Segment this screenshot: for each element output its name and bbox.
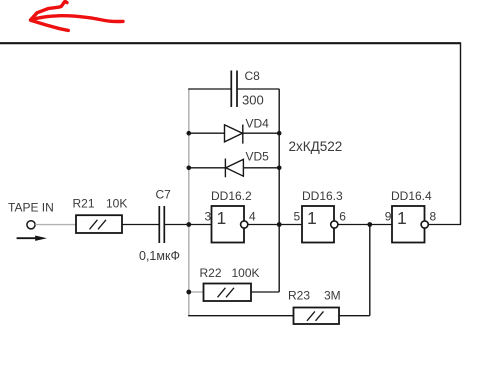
- capacitor C7: [159, 206, 164, 243]
- wire R23 to riser: [339, 315, 370, 317]
- wire junction down to R23 row: [369, 225, 371, 316]
- diode VD4: [225, 125, 243, 144]
- svg-text:1: 1: [397, 208, 407, 228]
- svg-text:TAPE IN: TAPE IN: [8, 201, 54, 215]
- wire top rail: [0, 42, 461, 44]
- wire C8 row: [188, 88, 279, 90]
- node junction C7 / left rail: [186, 222, 191, 227]
- svg-text:5: 5: [294, 210, 301, 224]
- node junction right rail / VD4: [277, 131, 282, 136]
- node junction DD16.3/DD16.4: [367, 222, 372, 227]
- svg-text:8: 8: [430, 210, 437, 224]
- wire DD16.4 output to riser: [428, 224, 461, 226]
- node junction left rail / R22: [186, 290, 191, 295]
- svg-text:2хКД522: 2хКД522: [289, 139, 343, 154]
- wire right riser from top rail to DD16.4 output: [460, 42, 462, 224]
- node junction right rail / VD5: [277, 166, 282, 171]
- svg-text:4: 4: [249, 210, 256, 224]
- svg-text:0,1мкФ: 0,1мкФ: [139, 249, 180, 263]
- wire junction to DD16.2 input: [189, 224, 212, 226]
- svg-text:R21: R21: [73, 197, 95, 211]
- wire bottom row to R23: [188, 315, 293, 317]
- svg-text:VD5: VD5: [246, 150, 270, 164]
- wire VD5 row: [189, 167, 280, 169]
- wire R22 to right rail: [251, 291, 279, 293]
- signal direction arrow: [17, 237, 36, 239]
- wire junction to DD16.3 input: [279, 224, 302, 226]
- svg-text:DD16.2: DD16.2: [211, 189, 252, 203]
- svg-text:C8: C8: [245, 69, 261, 83]
- resistor R21: [76, 215, 122, 233]
- node junction left rail / VD5: [187, 166, 192, 171]
- resistor R22: [204, 284, 252, 302]
- wire VD4 row: [189, 132, 280, 134]
- svg-text:3: 3: [205, 210, 212, 224]
- node junction left rail / VD4: [187, 131, 192, 136]
- svg-text:9: 9: [385, 210, 392, 224]
- red annotation arrow: [31, 1, 123, 30]
- svg-text:1: 1: [217, 208, 227, 228]
- wire junction to R22 (gray): [189, 291, 204, 293]
- svg-text:100K: 100K: [232, 266, 260, 280]
- wire terminal to R21: [35, 224, 76, 226]
- svg-text:300: 300: [242, 93, 264, 108]
- svg-text:R22: R22: [200, 266, 222, 280]
- wire right rail: [278, 89, 280, 292]
- resistor R23: [294, 308, 340, 325]
- svg-text:6: 6: [339, 210, 346, 224]
- wire DD16.2 output: [248, 224, 279, 226]
- svg-text:R23: R23: [288, 289, 310, 303]
- wire C7 to junction: [165, 224, 189, 226]
- svg-text:1: 1: [307, 208, 317, 228]
- svg-text:DD16.4: DD16.4: [391, 189, 432, 203]
- capacitor C8: [231, 71, 237, 108]
- svg-text:10K: 10K: [106, 197, 127, 211]
- wire left rail (gray): [188, 89, 190, 316]
- svg-text:DD16.3: DD16.3: [302, 189, 343, 203]
- wire R21 to C7: [122, 224, 159, 226]
- svg-text:3M: 3M: [324, 289, 341, 303]
- svg-text:VD4: VD4: [246, 117, 270, 131]
- wire DD16.3 output: [338, 224, 370, 226]
- svg-text:C7: C7: [156, 188, 172, 202]
- wire junction to DD16.4 input: [370, 224, 392, 226]
- node junction DD16.2/DD16.3: [277, 222, 282, 227]
- diode VD5: [225, 159, 243, 178]
